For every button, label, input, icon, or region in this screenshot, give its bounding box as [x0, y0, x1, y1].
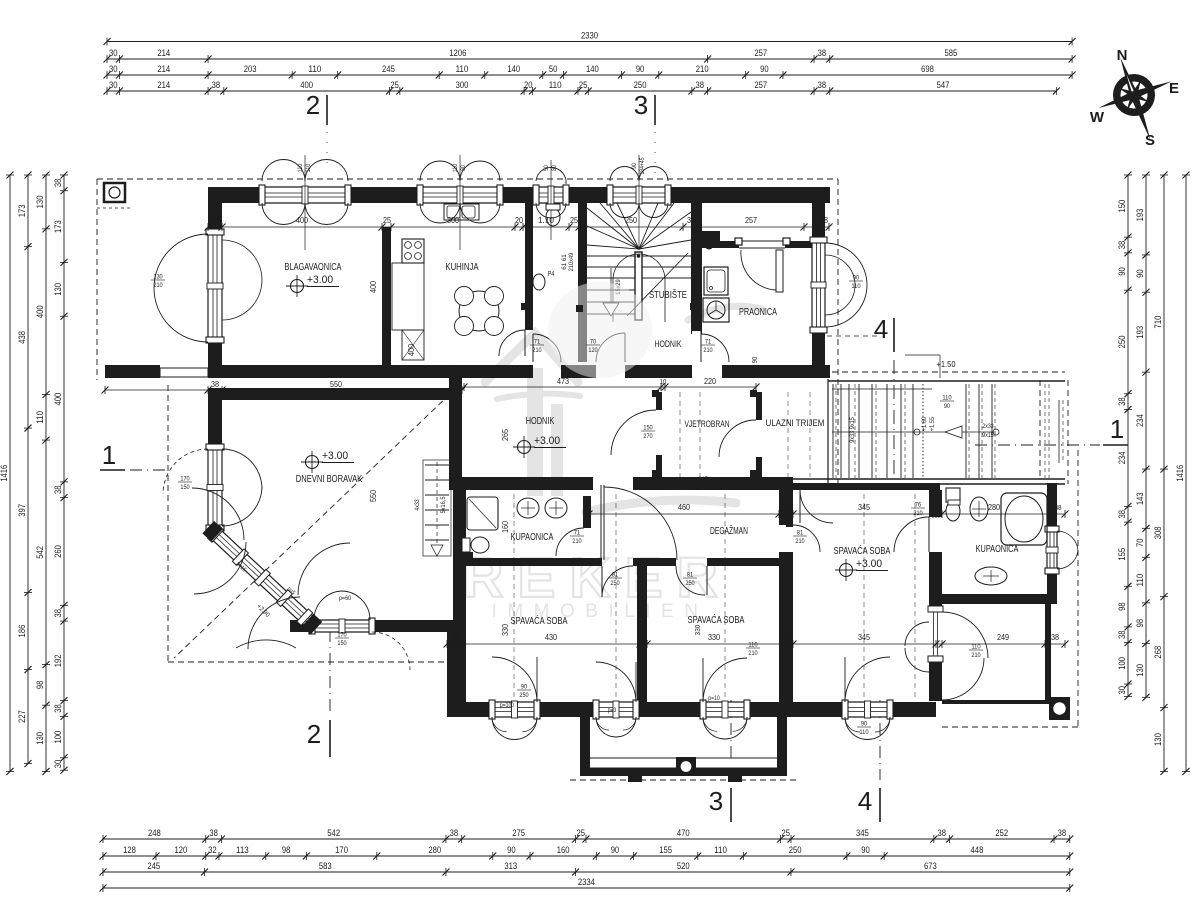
svg-text:214: 214 [157, 80, 170, 90]
svg-text:547: 547 [937, 80, 950, 90]
svg-text:110: 110 [859, 729, 869, 736]
svg-text:245: 245 [382, 64, 395, 74]
svg-text:+1.55: +1.55 [930, 416, 936, 431]
svg-text:+3.00: +3.00 [856, 558, 882, 570]
svg-text:250: 250 [685, 580, 695, 587]
svg-text:38: 38 [211, 379, 219, 389]
svg-text:9x33 9x15: 9x33 9x15 [850, 417, 856, 443]
svg-text:p=60: p=60 [339, 595, 352, 602]
svg-text:214: 214 [157, 48, 170, 58]
svg-text:110: 110 [456, 64, 469, 74]
svg-text:90: 90 [861, 845, 870, 855]
svg-text:270: 270 [643, 433, 653, 440]
svg-text:140: 140 [507, 64, 520, 74]
svg-text:98: 98 [282, 845, 291, 855]
svg-text:250: 250 [519, 692, 529, 699]
svg-text:76: 76 [915, 502, 922, 509]
svg-text:70: 70 [1135, 539, 1145, 548]
svg-text:80: 80 [461, 165, 467, 171]
svg-text:308: 308 [1153, 526, 1163, 539]
svg-text:110: 110 [298, 163, 304, 172]
svg-text:38: 38 [1117, 241, 1127, 250]
svg-text:38: 38 [53, 486, 63, 495]
svg-text:38: 38 [53, 609, 63, 618]
svg-text:173: 173 [53, 220, 63, 233]
svg-text:71: 71 [534, 339, 541, 346]
svg-text:210: 210 [696, 64, 709, 74]
svg-text:250: 250 [1117, 336, 1127, 349]
svg-text:330: 330 [500, 624, 510, 636]
svg-text:583: 583 [319, 861, 332, 871]
svg-text:2330: 2330 [581, 31, 598, 41]
svg-text:265: 265 [500, 429, 510, 441]
svg-text:5x16,5: 5x16,5 [441, 496, 447, 514]
svg-text:330: 330 [693, 625, 702, 636]
svg-text:+1.60: +1.60 [922, 416, 928, 431]
svg-text:210x49: 210x49 [568, 252, 575, 271]
svg-text:110: 110 [971, 644, 981, 651]
svg-text:400: 400 [300, 80, 313, 90]
svg-text:4x33: 4x33 [415, 499, 421, 511]
svg-text:130: 130 [53, 283, 63, 296]
svg-text:98: 98 [1135, 619, 1145, 628]
svg-text:170: 170 [335, 845, 348, 855]
svg-text:20: 20 [515, 215, 523, 225]
svg-text:542: 542 [327, 828, 340, 838]
svg-text:4: 4 [874, 314, 888, 344]
svg-text:38: 38 [450, 828, 459, 838]
svg-text:90: 90 [861, 721, 868, 728]
svg-text:61 61: 61 61 [561, 254, 568, 270]
svg-text:SPAVAĆA SOBA: SPAVAĆA SOBA [688, 613, 745, 626]
svg-text:38: 38 [687, 215, 695, 225]
svg-text:193: 193 [1135, 326, 1145, 339]
svg-text:210: 210 [153, 282, 163, 289]
svg-text:110: 110 [942, 395, 952, 402]
svg-text:20: 20 [524, 80, 533, 90]
svg-text:30: 30 [448, 366, 457, 373]
svg-text:155: 155 [1117, 548, 1127, 561]
svg-text:KUPAONICA: KUPAONICA [511, 532, 554, 543]
svg-text:90: 90 [521, 684, 528, 691]
svg-text:90: 90 [1117, 267, 1127, 276]
svg-text:448: 448 [971, 845, 984, 855]
svg-text:90: 90 [944, 403, 951, 410]
svg-text:32: 32 [452, 376, 460, 386]
svg-text:ULAZNI TRIJEM: ULAZNI TRIJEM [766, 418, 825, 429]
svg-text:BLAGAVAONICA: BLAGAVAONICA [285, 262, 342, 273]
svg-text:120: 120 [588, 347, 598, 354]
svg-text:HODNIK: HODNIK [526, 416, 555, 427]
svg-text:N: N [1117, 47, 1128, 64]
svg-text:160: 160 [557, 845, 570, 855]
svg-text:110: 110 [1135, 574, 1145, 587]
svg-text:38: 38 [1117, 397, 1127, 406]
svg-text:313: 313 [504, 861, 517, 871]
svg-text:KUPAONICA: KUPAONICA [976, 544, 1019, 555]
svg-text:VJETROBRAN: VJETROBRAN [684, 419, 729, 430]
svg-text:110: 110 [748, 642, 758, 649]
svg-text:+3.00: +3.00 [322, 450, 348, 462]
svg-text:245: 245 [147, 861, 160, 871]
svg-text:698: 698 [921, 64, 934, 74]
svg-text:155: 155 [659, 845, 672, 855]
svg-text:300: 300 [447, 215, 459, 225]
svg-text:38: 38 [1117, 510, 1127, 519]
svg-text:81: 81 [797, 530, 804, 537]
svg-text:2x33: 2x33 [982, 424, 994, 430]
svg-text:38: 38 [451, 632, 459, 642]
svg-text:1: 1 [1110, 414, 1124, 444]
svg-text:470: 470 [677, 828, 690, 838]
svg-text:KUHINJA: KUHINJA [445, 262, 478, 273]
svg-text:1.10: 1.10 [538, 215, 554, 225]
svg-text:210: 210 [532, 347, 542, 354]
svg-text:SPAVAĆA SOBA: SPAVAĆA SOBA [834, 544, 891, 557]
svg-text:110: 110 [309, 64, 322, 74]
svg-text:1206: 1206 [449, 48, 466, 58]
svg-text:550: 550 [330, 379, 342, 389]
svg-text:DEGAŽMAN: DEGAŽMAN [710, 524, 748, 537]
svg-text:143: 143 [1135, 492, 1145, 505]
svg-text:130: 130 [1153, 733, 1163, 746]
svg-text:128: 128 [123, 845, 136, 855]
svg-text:3: 3 [634, 90, 648, 120]
svg-text:DNEVNI BORAVAK: DNEVNI BORAVAK [296, 474, 363, 485]
svg-text:32: 32 [208, 845, 217, 855]
svg-text:38: 38 [1054, 503, 1061, 512]
svg-text:252: 252 [995, 828, 1008, 838]
svg-text:192: 192 [53, 654, 63, 667]
svg-text:2: 2 [306, 90, 320, 120]
svg-text:250: 250 [610, 580, 620, 587]
svg-text:SPAVAĆA SOBA: SPAVAĆA SOBA [511, 614, 568, 627]
svg-text:90: 90 [611, 845, 620, 855]
svg-text:110: 110 [714, 845, 727, 855]
svg-text:90: 90 [636, 64, 645, 74]
svg-text:210: 210 [703, 347, 713, 354]
svg-text:38: 38 [211, 215, 219, 225]
svg-text:173: 173 [17, 204, 27, 217]
svg-text:71: 71 [574, 530, 581, 537]
svg-text:p=147: p=147 [692, 476, 708, 483]
svg-text:38: 38 [212, 80, 221, 90]
svg-text:110: 110 [851, 283, 861, 290]
svg-text:1416: 1416 [1175, 465, 1185, 482]
svg-text:400: 400 [53, 393, 63, 406]
svg-text:234: 234 [1117, 451, 1127, 464]
svg-text:210: 210 [971, 652, 981, 659]
svg-text:250: 250 [625, 215, 637, 225]
svg-text:2: 2 [307, 719, 321, 749]
svg-text:90: 90 [853, 275, 860, 282]
svg-text:150: 150 [337, 640, 347, 647]
svg-text:9x15: 9x15 [982, 433, 994, 439]
svg-text:400: 400 [35, 305, 45, 318]
svg-text:25: 25 [383, 215, 391, 225]
svg-text:186: 186 [17, 625, 27, 638]
svg-text:210: 210 [748, 650, 758, 657]
svg-text:130: 130 [35, 196, 45, 209]
svg-text:248: 248 [148, 828, 161, 838]
svg-text:140: 140 [586, 64, 599, 74]
svg-text:81: 81 [687, 572, 694, 579]
svg-text:70: 70 [590, 339, 597, 346]
svg-text:550: 550 [368, 490, 378, 502]
svg-text:113: 113 [236, 845, 249, 855]
svg-text:345: 345 [856, 828, 869, 838]
svg-text:HODNIK: HODNIK [654, 339, 682, 350]
svg-text:400: 400 [368, 281, 378, 293]
svg-text:25: 25 [784, 503, 791, 512]
svg-text:160: 160 [500, 521, 510, 533]
svg-text:50: 50 [549, 64, 558, 74]
svg-text:400: 400 [296, 215, 308, 225]
svg-text:430: 430 [545, 632, 557, 642]
svg-text:110: 110 [453, 163, 459, 172]
svg-text:p=3: p=3 [608, 708, 617, 714]
svg-text:460: 460 [678, 502, 690, 512]
svg-text:71: 71 [705, 339, 712, 346]
svg-text:250: 250 [789, 845, 802, 855]
svg-text:+3.00: +3.00 [534, 435, 560, 447]
svg-text:214: 214 [157, 64, 170, 74]
svg-text:150: 150 [1117, 200, 1127, 213]
svg-text:1: 1 [102, 440, 116, 470]
svg-text:S: S [1145, 132, 1155, 149]
svg-text:90: 90 [760, 64, 769, 74]
svg-text:260: 260 [53, 545, 63, 558]
svg-text:473: 473 [557, 376, 569, 386]
svg-text:38: 38 [820, 215, 828, 225]
svg-text:90: 90 [1135, 269, 1145, 278]
svg-text:130: 130 [1135, 664, 1145, 677]
svg-text:50: 50 [544, 165, 550, 171]
svg-text:110: 110 [306, 163, 312, 172]
svg-text:PRAONICA: PRAONICA [739, 307, 777, 318]
svg-text:542: 542 [35, 546, 45, 559]
svg-text:1416: 1416 [0, 465, 9, 482]
svg-text:520: 520 [677, 861, 690, 871]
svg-text:673: 673 [924, 861, 937, 871]
svg-text:E: E [1169, 80, 1179, 97]
svg-text:268: 268 [1153, 646, 1163, 659]
svg-text:203: 203 [244, 64, 257, 74]
svg-text:38: 38 [1058, 828, 1067, 838]
svg-text:150: 150 [180, 484, 190, 491]
svg-text:438: 438 [17, 331, 27, 344]
svg-text:38: 38 [938, 828, 947, 838]
svg-text:249: 249 [997, 632, 1009, 642]
svg-text:397: 397 [17, 504, 27, 517]
svg-text:210: 210 [795, 538, 805, 545]
svg-text:130: 130 [153, 274, 163, 281]
svg-text:710: 710 [1153, 316, 1163, 329]
svg-text:130: 130 [35, 732, 45, 745]
svg-text:280: 280 [428, 845, 441, 855]
svg-text:110: 110 [549, 80, 562, 90]
svg-text:10: 10 [639, 632, 647, 642]
svg-text:120: 120 [174, 845, 187, 855]
svg-text:275: 275 [512, 828, 525, 838]
svg-text:98: 98 [35, 681, 45, 690]
svg-text:330: 330 [708, 632, 720, 642]
svg-text:80: 80 [552, 165, 558, 171]
svg-text:38: 38 [209, 828, 218, 838]
svg-text:210: 210 [572, 538, 582, 545]
svg-text:220: 220 [704, 376, 716, 386]
svg-text:4: 4 [858, 786, 872, 816]
svg-text:p=100: p=100 [500, 703, 515, 709]
svg-text:280: 280 [988, 502, 1000, 512]
svg-text:300: 300 [456, 80, 469, 90]
svg-text:+3.00: +3.00 [307, 274, 333, 286]
svg-text:257: 257 [754, 80, 767, 90]
svg-text:90: 90 [632, 163, 638, 169]
svg-text:38: 38 [695, 80, 704, 90]
svg-text:2334: 2334 [578, 877, 595, 887]
svg-text:25: 25 [784, 632, 792, 642]
svg-text:25: 25 [570, 215, 578, 225]
svg-text:100: 100 [1117, 657, 1127, 670]
svg-text:90: 90 [507, 845, 516, 855]
svg-text:10: 10 [660, 379, 667, 386]
svg-text:257: 257 [754, 48, 767, 58]
svg-text:170: 170 [337, 632, 347, 639]
svg-text:W: W [1090, 109, 1105, 126]
svg-text:38: 38 [818, 48, 827, 58]
svg-text:257: 257 [745, 215, 757, 225]
svg-text:98: 98 [1117, 602, 1127, 611]
svg-text:150: 150 [643, 425, 653, 432]
svg-text:250: 250 [634, 80, 647, 90]
svg-text:81: 81 [612, 572, 619, 579]
svg-text:STUBIŠTE: STUBIŠTE [649, 288, 687, 301]
svg-text:38: 38 [1117, 631, 1127, 640]
svg-text:3: 3 [709, 786, 723, 816]
svg-text:90: 90 [752, 357, 759, 364]
svg-text:P4: P4 [548, 271, 555, 278]
svg-text:38: 38 [818, 80, 827, 90]
svg-text:38: 38 [1051, 632, 1059, 642]
svg-text:400: 400 [406, 344, 416, 356]
svg-text:170: 170 [180, 476, 190, 483]
svg-text:227: 227 [17, 710, 27, 723]
svg-text:110: 110 [35, 411, 45, 424]
svg-text:100: 100 [53, 731, 63, 744]
svg-text:234: 234 [1135, 414, 1145, 427]
svg-text:38: 38 [53, 179, 63, 188]
svg-text:193: 193 [1135, 209, 1145, 222]
svg-text:184+45: 184+45 [640, 157, 646, 175]
svg-text:585: 585 [945, 48, 958, 58]
svg-text:38: 38 [53, 704, 63, 713]
svg-text:p=10: p=10 [708, 696, 720, 702]
svg-text:+1.50: +1.50 [937, 360, 957, 369]
